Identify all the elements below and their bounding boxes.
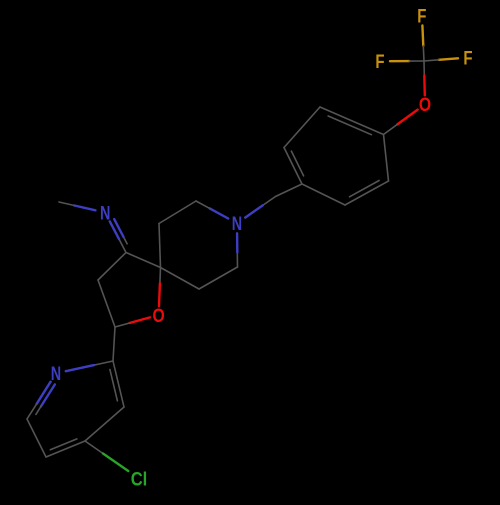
svg-text:N: N (100, 202, 110, 224)
svg-text:N: N (232, 213, 242, 235)
svg-text:F: F (463, 47, 472, 69)
svg-text:F: F (417, 5, 426, 27)
svg-text:Cl: Cl (131, 468, 148, 490)
svg-text:N: N (51, 363, 61, 385)
svg-text:O: O (419, 94, 431, 116)
svg-text:O: O (153, 305, 165, 327)
svg-text:F: F (375, 51, 384, 73)
